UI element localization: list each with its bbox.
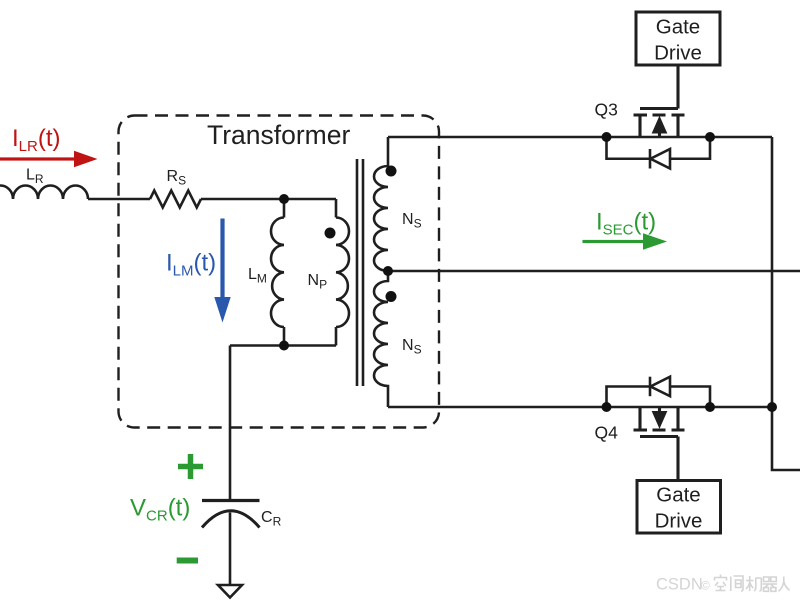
winding NP	[336, 199, 349, 346]
wire	[388, 406, 772, 409]
inductor LR	[0, 186, 88, 200]
svg-text:Drive: Drive	[655, 510, 703, 533]
svg-text:Q4: Q4	[595, 423, 619, 443]
resistor RS	[150, 191, 201, 208]
transformer dashed box	[119, 116, 440, 428]
gate drive box top	[636, 12, 720, 65]
transformer core	[357, 159, 363, 386]
inductor LM	[271, 199, 284, 346]
svg-text:Gate: Gate	[656, 484, 700, 507]
svg-text:Gate: Gate	[656, 15, 700, 38]
wire	[201, 198, 336, 201]
node dots	[279, 132, 777, 412]
svg-text:CR: CR	[261, 509, 282, 529]
transistor Q3	[634, 65, 685, 137]
transistor Q4	[634, 407, 685, 481]
diode D4	[607, 387, 711, 408]
plus sign	[178, 454, 203, 479]
wire	[88, 198, 150, 201]
svg-text:LM: LM	[248, 266, 267, 286]
watermark CJK glyph strokes	[714, 575, 790, 592]
wire	[229, 513, 232, 586]
wire	[388, 136, 772, 139]
svg-text:NS: NS	[402, 211, 422, 231]
blue current arrow ILM	[214, 219, 230, 323]
svg-text:LR: LR	[26, 167, 44, 187]
capacitor CR	[202, 499, 260, 502]
svg-text:ISEC(t): ISEC(t)	[596, 209, 656, 239]
winding NS top	[374, 137, 388, 271]
green current arrow ISEC	[583, 233, 668, 250]
diode D3	[607, 137, 711, 159]
svg-text:Transformer: Transformer	[207, 120, 350, 150]
wire	[230, 344, 336, 347]
minus sign	[177, 558, 198, 564]
svg-text:VCR(t): VCR(t)	[130, 495, 190, 525]
ground	[218, 585, 242, 598]
svg-text:CSDN: CSDN	[656, 576, 703, 594]
wire	[772, 137, 800, 470]
svg-text:Q3: Q3	[595, 100, 618, 120]
svg-text:NP: NP	[308, 272, 328, 292]
svg-text:©: ©	[701, 579, 710, 593]
svg-text:NS: NS	[402, 337, 422, 357]
wire	[229, 346, 232, 501]
wire	[388, 270, 800, 273]
svg-text:ILR(t): ILR(t)	[12, 125, 61, 155]
gate drive box bottom	[637, 481, 721, 534]
svg-text:Drive: Drive	[654, 42, 702, 65]
red current arrow ILR	[0, 151, 98, 168]
winding NS bottom	[374, 271, 388, 407]
svg-text:RS: RS	[167, 168, 187, 188]
svg-text:ILM(t): ILM(t)	[166, 250, 216, 280]
